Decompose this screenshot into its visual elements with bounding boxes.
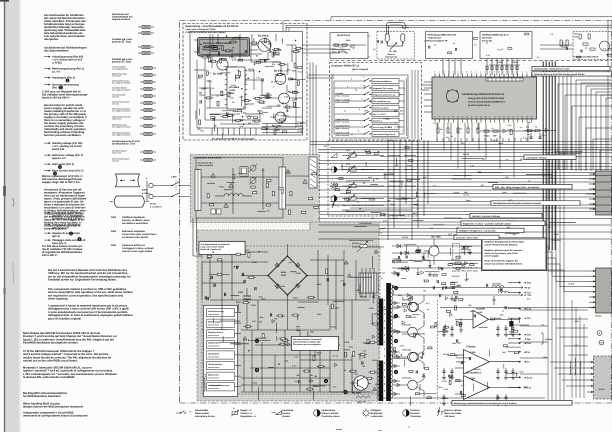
- svg-text:Beseire: Beseire: [388, 53, 396, 56]
- keyboard left entry wires: [307, 74, 335, 76]
- svg-text:-(29 0)-: -(29 0)-: [512, 61, 519, 64]
- svg-text:55: 55: [480, 116, 482, 119]
- svg-text:+L T1v: +L T1v: [524, 317, 532, 320]
- svg-text:10n: 10n: [528, 121, 531, 124]
- svg-text:Ch. 4/0k: Ch. 4/0k: [389, 50, 398, 53]
- svg-text:27851/06k: 27851/06k: [402, 324, 412, 327]
- svg-text:2W: 2W: [259, 320, 262, 323]
- svg-text:approx. 6 V: approx. 6 V: [52, 157, 66, 160]
- svg-text:C 5: C 5: [449, 132, 452, 135]
- svg-text:Contrast i Farb i S.W: Contrast i Farb i S.W: [456, 237, 478, 240]
- svg-text:original ersetzen: original ersetzen: [112, 18, 131, 21]
- scan edge dark line: [4, 0, 5, 432]
- rectifier diodes on rails: [397, 244, 400, 248]
- control rows with icons: [331, 154, 337, 158]
- svg-text:C 5: C 5: [537, 56, 540, 59]
- mid connector ticks under ic: [436, 138, 438, 142]
- svg-text:C655: C655: [393, 258, 398, 261]
- svg-text:62: 62: [448, 116, 450, 119]
- svg-text:control block: control block: [208, 324, 219, 327]
- transistor Q2 BC558B: [217, 59, 228, 70]
- resistor row below ic: [437, 128, 439, 133]
- svg-text:C 1,3V: C 1,3V: [298, 121, 305, 124]
- bridge rectifier diamond: [268, 256, 307, 295]
- label strip Schallplatten: [491, 201, 580, 205]
- svg-text:Satlg (b-(03.xf)-003.01/(: Satlg (b-(03.xf)-003.01/(03/3N 05.08: [468, 97, 505, 100]
- module HF-Baustein 29502-006.63: [198, 38, 250, 57]
- schematic sheet border chain line left: [179, 22, 181, 403]
- svg-text:MC 38 M05 CT: MC 38 M05 CT: [466, 372, 482, 375]
- svg-text:+F T1v: +F T1v: [524, 292, 532, 295]
- svg-text:+B Twr: +B Twr: [524, 342, 532, 345]
- svg-text:C 5: C 5: [603, 48, 606, 51]
- svg-text:Mains switch: Mains switch: [195, 412, 210, 415]
- svg-text:R 101: R 101: [231, 84, 236, 87]
- svg-text:560: 560: [308, 379, 311, 382]
- svg-text:1N4148: 1N4148: [369, 199, 376, 202]
- svg-text:Lautstarke: Lautstarke: [282, 409, 294, 412]
- svg-text:10n: 10n: [527, 133, 530, 136]
- svg-text:10n: 10n: [476, 128, 479, 131]
- svg-text:Zum potenshus omnpou app: Zum potenshus omnpou app: [293, 341, 321, 344]
- control ic stack TDA4600: [204, 306, 238, 397]
- svg-text:4: 4: [448, 71, 449, 74]
- bottom label strip amps: [452, 401, 572, 406]
- svg-text:BC548: BC548: [598, 388, 604, 391]
- components under ic right: [484, 130, 489, 132]
- ground symbols secondary: [397, 272, 399, 274]
- svg-text:0,47: 0,47: [245, 249, 249, 252]
- secondary output rails: [392, 245, 520, 247]
- svg-text:HF-Eingang 2906x 015.31 B: HF-Eingang 2906x 015.31 B: [428, 34, 457, 37]
- svg-text:L5A 100u: L5A 100u: [492, 283, 502, 286]
- right column extra verticals: [543, 62, 545, 250]
- svg-text:R 101: R 101: [241, 112, 246, 115]
- svg-text:BC 548C: BC 548C: [274, 70, 284, 73]
- svg-text:Nulldetektor: Nulldetektor: [208, 342, 220, 345]
- svg-text:2a: 2a: [466, 116, 468, 119]
- svg-text:2: 2: [376, 87, 377, 90]
- input cap to ground: [460, 319, 462, 323]
- svg-text:R 712: R 712: [333, 354, 338, 357]
- svg-text:6: 6: [359, 108, 360, 111]
- module right connector block B: [596, 268, 612, 313]
- svg-text:u. R 615: u. R 615: [52, 62, 63, 65]
- svg-text:4 % Schalter: 4 % Schalter: [461, 245, 473, 248]
- svg-text:see text: see text: [112, 160, 119, 163]
- svg-text:100n: 100n: [292, 69, 297, 72]
- svg-text:Bild: Bild: [464, 191, 467, 194]
- top rail above amp: [440, 307, 612, 309]
- svg-text:1N4148: 1N4148: [379, 308, 386, 311]
- svg-text:(29 05-102.2): (29 05-102.2): [337, 34, 350, 37]
- svg-text:2: 2: [387, 134, 388, 137]
- svg-text:Interruttore di rete: Interruttore di rete: [195, 415, 215, 418]
- vertical wires right descend to bottom: [547, 152, 549, 400]
- svg-text:19: 19: [526, 116, 528, 119]
- svg-text:Tr 2: Tr 2: [244, 70, 247, 73]
- svg-text:4: 4: [489, 71, 490, 74]
- transistor Q4 BC548C: [279, 93, 290, 104]
- output coil top: [498, 291, 509, 293]
- svg-text:nur original ersetzen: nur original ersetzen: [112, 89, 131, 92]
- components left of TV-Netzteil: [560, 40, 562, 46]
- svg-text:8: 8: [508, 71, 509, 74]
- label strip Lautstaerke Volume: [524, 155, 576, 159]
- module TV-Prozessor box: [426, 32, 473, 59]
- svg-text:220V~: 220V~: [142, 189, 149, 192]
- svg-text:9: 9: [512, 71, 513, 74]
- bus strips extra: [558, 152, 581, 154]
- svg-text:1N40: 1N40: [280, 285, 285, 288]
- svg-text:Startimpuls: Startimpuls: [208, 352, 220, 355]
- wires from top boxes down: [442, 59, 444, 76]
- svg-text:+E 5c1v: +E 5c1v: [524, 376, 533, 379]
- svg-text:control block: control block: [208, 313, 219, 316]
- stray bottom marks: [336, 429, 342, 431]
- svg-text:R 12: R 12: [542, 134, 546, 137]
- svg-text:2 kV: 2 kV: [574, 36, 579, 39]
- svg-text:pezzi di ricambio originali.: pezzi di ricambio originali.: [48, 317, 82, 320]
- small squares bottom: [211, 209, 216, 214]
- power area components random: [297, 326, 299, 331]
- label strips repaint: [524, 155, 576, 159]
- svg-text:R 101: R 101: [276, 49, 281, 52]
- svg-text:control block: control block: [208, 334, 219, 337]
- svg-text:R 101: R 101: [202, 87, 207, 90]
- svg-text:(Pin 7): (Pin 7): [52, 87, 60, 90]
- svg-text:10n: 10n: [440, 128, 443, 131]
- svg-text:b(ansuweris: b(ansuweris: [386, 56, 399, 59]
- svg-text:Start pulse (Pin 4): Start pulse (Pin 4): [52, 163, 74, 166]
- keyboard switch rows: [334, 80, 363, 82]
- module TV-Netzteil dashed box right: [573, 32, 612, 60]
- svg-text:Vari T k 1 AFCi: Vari T k 1 AFCi: [373, 113, 386, 116]
- left power column parts: [210, 276, 212, 279]
- zigzag 50Hz under transformer: [356, 396, 370, 398]
- svg-text:Contrasto: Contrasto: [410, 415, 421, 418]
- ic top pin connector bar: [486, 78, 523, 81]
- arrow list german: [44, 56, 51, 58]
- parts cluster below ic right: [527, 130, 532, 132]
- svg-text:Di616: Di616: [296, 272, 301, 275]
- svg-text:Focus einstellen: Focus einstellen: [198, 164, 214, 167]
- svg-text:63: 63: [452, 116, 454, 119]
- svg-text:560: 560: [296, 374, 299, 377]
- svg-text:Schienenfuhrung Acar/Tafe dis: Schienenfuhrung Acar/Tafe display gortel…: [534, 73, 585, 76]
- svg-text:Schallplattenschnitt (audio) S: Schallplattenschnitt (audio) Suchlauf vo…: [493, 202, 542, 205]
- svg-text:Si 601: Si 601: [150, 203, 157, 206]
- svg-text:Helligkeit: Helligkeit: [371, 409, 381, 412]
- svg-text:15: 15: [507, 116, 509, 119]
- wires exiting right of module: [303, 44, 331, 46]
- svg-text:3: 3: [443, 71, 444, 74]
- module right dashed gray block C: [594, 356, 612, 399]
- bridge emphasize: [268, 256, 307, 295]
- extra wires top module again: [194, 39, 197, 41]
- svg-text:220u: 220u: [236, 301, 241, 304]
- svg-text:C 0,3V: C 0,3V: [298, 127, 305, 130]
- svg-text:3: 3: [526, 71, 527, 74]
- electrolytic cap output: [509, 321, 513, 327]
- svg-text:Anodenspannung 27,5 kV: Anodenspannung 27,5 kV: [112, 140, 141, 143]
- svg-text:Referenzspg: Referenzspg: [208, 321, 221, 324]
- svg-text:carried out on the color/RGB c: carried out on the color/RGB circuit boa…: [23, 360, 78, 363]
- ic left pin stubs: [424, 81, 432, 83]
- svg-text:Mem: Mem: [388, 126, 392, 129]
- svg-text:vedi testo: vedi testo: [112, 75, 122, 78]
- svg-text:24: 24: [457, 116, 459, 119]
- svg-text:Basisstrom: Basisstrom: [208, 374, 219, 377]
- svg-text:IC631: IC631: [369, 307, 374, 310]
- svg-text:BC548: BC548: [372, 359, 378, 362]
- circled numbers markers: [255, 339, 259, 343]
- mains voltage adapt pot: [352, 246, 384, 248]
- arrow list italian: [44, 212, 51, 214]
- svg-text:BC 5x8C: BC 5x8C: [272, 125, 282, 128]
- svg-text:6: 6: [499, 71, 500, 74]
- svg-text:nur original ersetzen: nur original ersetzen: [112, 126, 131, 129]
- svg-text:(Hub u schacht): (Hub u schacht): [336, 127, 350, 130]
- transistor Q5: [275, 112, 286, 123]
- svg-text:Sync: Sync: [502, 191, 506, 194]
- svg-text:4: 4: [361, 98, 362, 101]
- extra bus wires full width: [318, 149, 612, 151]
- svg-text:560: 560: [465, 278, 468, 281]
- svg-text:C707: C707: [400, 344, 405, 347]
- svg-text:0,47: 0,47: [252, 320, 256, 323]
- svg-text:5: 5: [395, 121, 396, 124]
- svg-text:Stern/TV u Larche: Stern/TV u Larche: [373, 107, 388, 110]
- svg-text:3-Opt. 16 S.: 3-Opt. 16 S.: [461, 251, 472, 254]
- svg-text:Vertikal i Contrast Cathode: Vertikal i Contrast Cathode: [472, 215, 501, 218]
- svg-text:control block: control block: [208, 377, 219, 380]
- posistor component: [385, 34, 389, 42]
- pincushion sketch east-west convex: [114, 196, 144, 207]
- svg-text:(Hub u schacht): (Hub u schacht): [336, 101, 350, 104]
- svg-text:Farbbild ggf. nach-: Farbbild ggf. nach-: [112, 38, 133, 41]
- amp section dashed boundary: [437, 300, 439, 400]
- svg-text:R 712: R 712: [464, 193, 469, 196]
- top row extra parts: [577, 56, 581, 58]
- svg-text:HF-Zweite 29502-006.63: HF-Zweite 29502-006.63: [203, 42, 232, 45]
- svg-text:Volume: Volume: [282, 412, 291, 415]
- arrow list english: [44, 142, 51, 144]
- svg-text:R 12: R 12: [508, 128, 512, 131]
- topleft module extra parts: [243, 124, 245, 126]
- svg-text:C 5: C 5: [346, 39, 349, 42]
- svg-text:control block: control block: [208, 387, 219, 390]
- svg-text:Tast: Tast: [574, 33, 578, 36]
- svg-text:Bedienungs einstellzeilen/Gera: Bedienungs einstellzeilen/Gerat la alter…: [454, 402, 517, 405]
- svg-text:Netzspannungsanpassung: Netzspannungsanpassung: [349, 239, 374, 242]
- pots box extra parts: [356, 155, 357, 156]
- svg-text:10n: 10n: [446, 136, 449, 139]
- svg-text:Abstimmung 29504-003.01/111.1: Abstimmung 29504-003.01/111.111: [462, 93, 505, 96]
- power supply shaded region: [197, 222, 379, 401]
- resistor diode row: [455, 262, 461, 264]
- transformer windings arcs right: [391, 285, 393, 289]
- svg-text:Ersatzfall durfen nur Original: Ersatzfall durfen nur Originalteile Verw…: [48, 279, 117, 282]
- svg-text:DRA: DRA: [111, 230, 116, 233]
- svg-text:auf der Primarseite des Netzte: auf der Primarseite des Netzteils.: [485, 243, 519, 246]
- svg-text:Punto di riferimento negativo: Punto di riferimento negativo per: [485, 260, 519, 263]
- trimmer capacitors: [250, 165, 256, 171]
- svg-text:BC 548C: BC 548C: [432, 236, 442, 239]
- amp area small parts: [402, 321, 405, 324]
- svg-text:(Hub u schacht): (Hub u schacht): [336, 120, 350, 123]
- label strip Helligkeit: [457, 228, 524, 232]
- svg-text:C 05: C 05: [256, 76, 260, 79]
- svg-text:TV-prozessor: TV-prozessor: [428, 37, 442, 40]
- svg-text:Startimpuls (Pin 4): Startimpuls (Pin 4): [52, 77, 75, 80]
- posistor dashed box: [377, 32, 414, 60]
- svg-text:DRA: DRA: [111, 216, 116, 219]
- mid column extra wires: [423, 193, 425, 199]
- svg-text:Bild: Bild: [387, 199, 390, 202]
- svg-text:grau-Sch. Pktnr 4 27% 4 215r: grau-Sch. Pktnr 4 27% 4 215r: [452, 269, 478, 272]
- keyboard inner board: [332, 75, 408, 138]
- scan edge band left: [5, 0, 19, 432]
- bus vertical drops from ic bottom: [436, 123, 438, 142]
- svg-text:S 2: S 2: [367, 34, 370, 37]
- svg-text:bei Strahlstrom 1 mA: bei Strahlstrom 1 mA: [112, 143, 135, 146]
- svg-text:IC631: IC631: [251, 304, 256, 307]
- power supply inner dash frame: [202, 246, 380, 394]
- svg-text:27851/06k: 27851/06k: [402, 377, 412, 380]
- svg-text:L1493: L1493: [229, 89, 236, 92]
- svg-text:C655: C655: [426, 259, 431, 262]
- svg-text:Mem: Mem: [397, 126, 401, 129]
- extra power wires: [371, 313, 373, 324]
- module Bildrohrplatte box: [330, 33, 368, 59]
- svg-text:2: 2: [439, 71, 440, 74]
- svg-text:9: 9: [489, 116, 490, 119]
- svg-text:220/240 V: 220/240 V: [352, 242, 361, 245]
- right edge staircase bends: [575, 80, 577, 171]
- svg-text:C 05: C 05: [284, 95, 288, 98]
- label strip Brightness Colour: [461, 221, 545, 225]
- svg-text:Farb/RGB-Steckkarte durchgefuh: Farb/RGB-Steckkarte durchgefuhrt werden.: [23, 342, 79, 345]
- svg-text:2: 2: [480, 71, 481, 74]
- svg-text:control block: control block: [208, 345, 219, 348]
- svg-text:la taratura PAL sulla scheda c: la taratura PAL sulla scheda croma/RGB.: [23, 376, 75, 379]
- svg-text:P2: P2: [363, 85, 365, 88]
- bottom right extra lines: [520, 309, 548, 311]
- svg-text:560: 560: [478, 171, 481, 174]
- svg-text:Netzteil i Bedienteil: Netzteil i Bedienteil: [574, 357, 577, 375]
- svg-text:Geratschalter / Daily period /: Geratschalter / Daily period / Lane: [534, 68, 570, 71]
- svg-text:R 12: R 12: [508, 124, 512, 127]
- svg-text:9: 9: [471, 71, 472, 74]
- svg-text:Di 654: Di 654: [402, 236, 409, 239]
- svg-text:Negativer Bezugspunkt fur Mess: Negativer Bezugspunkt fur Messungen: [485, 241, 525, 244]
- svg-text:6: 6: [363, 75, 364, 78]
- svg-text:4.587: 4.587: [478, 311, 483, 314]
- svg-text:bereich 160 bis 290 V~: bereich 160 bis 290 V~: [42, 97, 71, 100]
- transistor in TV-Netzteil: [600, 41, 610, 51]
- svg-text:Lage nach Losung der Platte: Lage nach Losung der Platte: [186, 28, 217, 31]
- ic pin ticks bottom: [434, 119, 436, 123]
- svg-text:2: 2: [522, 71, 523, 74]
- svg-text:Netz/Standard/Modus: Netz/Standard/Modus: [373, 80, 391, 83]
- svg-text:C 5: C 5: [367, 55, 370, 58]
- svg-text:Farbkontrast: Farbkontrast: [322, 409, 336, 412]
- svg-text:power supply.: power supply.: [485, 255, 500, 258]
- mains plug: [149, 183, 153, 187]
- svg-text:Fernbedienung: Fernbedienung: [569, 361, 572, 375]
- svg-text:function prevents oscillation:: function prevents oscillation:: [44, 134, 82, 137]
- svg-text:160 a 290 V~: 160 a 290 V~: [42, 254, 58, 257]
- wires exiting top of module: [282, 21, 284, 32]
- svg-text:ments on the primary side of t: ments on the primary side of the: [485, 252, 519, 255]
- svg-text:560: 560: [502, 351, 505, 354]
- svg-text:Hohen u. Basse/Bass and treble: Hohen u. Basse/Bass and treble/Alti bass…: [342, 204, 384, 207]
- svg-text:to tramite Di 616 e R 615: to tramite Di 616 e R 615: [52, 218, 83, 221]
- svg-text:R 101: R 101: [202, 48, 207, 51]
- svg-text:Programm speich (Ort up): Programm speich (Ort up): [373, 94, 396, 97]
- svg-text:wie Skizzen ausrichten: wie Skizzen ausrichten: [122, 222, 149, 225]
- transistor Q10 BU208A chopper: [354, 376, 368, 390]
- svg-text:x.x: x.x: [499, 136, 502, 138]
- transistor Q7 BC548C driver: [429, 246, 439, 256]
- degauss components inside: [334, 44, 339, 46]
- signal output arrows right edge: [508, 282, 521, 284]
- label strip Vertikal Contrast: [470, 214, 542, 218]
- svg-text:B 324: B 324: [484, 135, 490, 138]
- svg-text:as shown in the sketch: as shown in the sketch: [122, 236, 149, 239]
- svg-text:AU board: AU board: [482, 37, 493, 40]
- right column elbows upper: [557, 84, 559, 170]
- svg-text:(L 50Hz): (L 50Hz): [142, 192, 150, 195]
- keyboard inner vertical buses: [333, 81, 335, 134]
- label strip Schienenfuehrung: [532, 72, 612, 76]
- svg-text:C 3 V: C 3 V: [298, 124, 304, 127]
- svg-text:Diodo ad o grado olm: Diodo ad o grado olm: [201, 248, 222, 251]
- ic U10 Abstimmung 29504: [432, 77, 537, 119]
- svg-text:40% opt(x): 40% opt(x): [461, 248, 471, 251]
- svg-text:Negative reference point for m: Negative reference point for measure-: [485, 249, 524, 252]
- svg-text:Control ~A: Control ~A: [241, 412, 253, 415]
- svg-text:~: ~: [337, 205, 339, 209]
- svg-text:(Hub u schacht): (Hub u schacht): [336, 94, 350, 97]
- svg-text:ca. 4 V: ca. 4 V: [52, 71, 60, 74]
- svg-text:UHF-gelbe/Grun up): UHF-gelbe/Grun up): [373, 100, 390, 103]
- legend bass treble icon: [438, 407, 441, 416]
- svg-text:Netzschalter: Netzschalter: [195, 409, 209, 412]
- svg-text:Contrast: Contrast: [410, 412, 420, 415]
- svg-text:use original parts: use original parts: [112, 68, 128, 71]
- right frame vertical line: [607, 21, 609, 171]
- svg-text:Sync: Sync: [407, 164, 411, 167]
- svg-text:BU 208A: BU 208A: [352, 392, 361, 395]
- analog area small parts: [209, 57, 211, 62]
- bracket for S group: [541, 332, 543, 334]
- svg-text:2W: 2W: [274, 318, 277, 321]
- transistor Q3: [275, 74, 286, 85]
- label strip Bild Sp Tastg: [493, 185, 572, 189]
- svg-text:1N40: 1N40: [335, 306, 340, 309]
- svg-text:misure sul primario dell'alime: misure sul primario dell'alimentatore.: [485, 262, 523, 265]
- legend brightness icon: [364, 411, 369, 416]
- inner board outline vertikal: [196, 158, 283, 219]
- module Vertikalstufe shaded area: [191, 155, 320, 223]
- svg-text:5: 5: [347, 86, 348, 89]
- schalter dashed rect: [453, 244, 460, 260]
- svg-text:siehe Text: siehe Text: [112, 118, 121, 121]
- power area main wires: [202, 261, 268, 263]
- svg-text:always observe the MOS precaut: always observe the MOS precaution measur…: [23, 406, 83, 409]
